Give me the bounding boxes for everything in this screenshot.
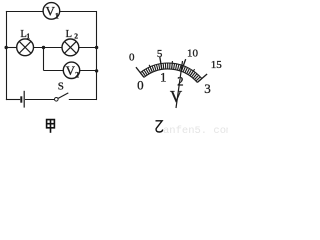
wire : battery to switch [25,99,54,101]
wire : bottom left to battery [6,99,20,101]
caption 乙 (drawn strokes) [156,121,163,132]
wire : L2 to right wire [79,47,97,49]
meter major ticks (0,5,10,15) [136,57,207,83]
voltmeter V1 [43,3,60,20]
wire : V2 to right wire [80,70,97,72]
switch S blade [58,93,68,99]
battery cell: short negative plate [20,96,22,102]
battery cell: long positive plate [23,91,25,108]
wire : down-leg to V2 [44,70,64,72]
wire : L1 to node A [34,47,63,49]
svg-text:2: 2 [75,70,79,79]
wire : right vertical [96,11,98,100]
meter needle [176,61,183,108]
meter half-division ticks [149,61,195,76]
meter scale band inner arc [144,69,197,82]
svg-text:1: 1 [55,11,59,20]
wire : node A down [43,48,45,71]
wire : lamps row, left wire to L1 [6,47,17,49]
caption 甲 (drawn strokes) [47,120,55,133]
svg-text:L: L [66,29,72,40]
lamp L2 [62,39,79,56]
node A dot between L1 and L2 [42,46,45,49]
svg-text:5: 5 [157,48,163,60]
meter scale band outer arc [140,63,201,79]
svg-text:0: 0 [129,52,135,64]
voltmeter V2 [63,62,79,78]
svg-text:15: 15 [211,59,223,71]
wire : switch to bottom right corner [69,99,97,101]
meter minor ticks [141,63,202,82]
node dot: right wire / lamps row [95,46,98,49]
svg-text:0: 0 [137,77,144,92]
wire : left vertical [6,11,8,100]
node dot: right wire / V2 row [95,69,98,72]
svg-text:10: 10 [187,47,199,59]
svg-text:S: S [58,80,64,92]
lamp L1 [17,39,34,56]
wire : outer loop top-left segment [6,11,43,13]
node dot: left wire / lamps row [5,46,8,49]
svg-text:1: 1 [26,32,30,41]
switch S pivot [55,98,59,102]
svg-text:2: 2 [74,32,78,41]
svg-text:3: 3 [204,81,211,96]
wire : outer loop top-right segment [60,11,97,13]
svg-text:1: 1 [160,69,167,84]
svg-text:anfen5. com: anfen5. com [163,125,228,137]
